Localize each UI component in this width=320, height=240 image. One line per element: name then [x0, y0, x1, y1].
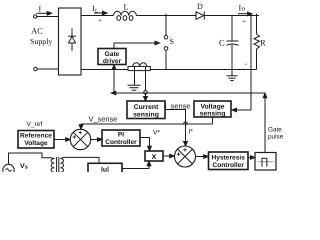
- svg-text:+: +: [242, 18, 246, 26]
- svg-text:Voltage: Voltage: [200, 104, 224, 111]
- transformer secondary winding: [60, 158, 63, 172]
- bottom rail: [81, 69, 257, 71]
- svg-text:|u|: |u|: [101, 167, 109, 173]
- wire hysteresis to pulse box: [248, 157, 251, 159]
- diode D: [196, 12, 204, 20]
- switch S contacts: [164, 35, 168, 39]
- gate pulse block: [255, 153, 276, 171]
- svg-text:-: -: [245, 59, 248, 68]
- svg-text:D: D: [197, 2, 203, 11]
- wire: top terminal to rectifier: [37, 16, 59, 18]
- wire gate driver to switch: [114, 43, 156, 49]
- svg-text:PI: PI: [118, 132, 124, 139]
- arrow into voltage sensing: [232, 108, 237, 112]
- wire: bottom terminal to rectifier: [37, 68, 58, 70]
- output ground stem: [231, 70, 233, 76]
- gate pulse feedback horizontal wire: [115, 92, 266, 94]
- Vs sine: [6, 169, 12, 172]
- arrow I (input current): [37, 12, 49, 14]
- capacitor C plates: [227, 41, 239, 45]
- svg-text:I_sense: I_sense: [165, 102, 191, 111]
- svg-text:driver: driver: [103, 58, 122, 65]
- resistor R branch bottom: [256, 49, 258, 70]
- CT lead into current sensing with arrow: [145, 94, 147, 97]
- capacitor C branch bottom: [231, 45, 233, 70]
- output ground bars: [227, 76, 238, 81]
- voltage sense tap wire (Vo to voltage sensing): [234, 16, 251, 111]
- svg-text:V*: V*: [153, 130, 160, 137]
- terminal (AC supply bottom): [34, 67, 37, 70]
- svg-text:L: L: [124, 3, 129, 12]
- crossover circle on CT lead: [144, 91, 148, 95]
- gate pulse vertical wire from pulse box: [264, 94, 266, 153]
- wire: inductor to diode D: [136, 15, 196, 17]
- summer 2 cross: [178, 149, 193, 164]
- wire: diode to output node: [204, 15, 259, 17]
- CT ground bars: [128, 85, 141, 90]
- svg-text:C: C: [219, 38, 225, 48]
- summer plus signs: [73, 131, 187, 156]
- gate driver box: [98, 49, 126, 65]
- svg-text:Supply: Supply: [30, 37, 52, 46]
- wire summer 2 to hysteresis controller: [196, 156, 205, 158]
- junction tick at R branch: [256, 14, 258, 16]
- summer 1 circle: [70, 129, 90, 149]
- svg-text:Controller: Controller: [105, 139, 137, 146]
- gate pulse wire up into gate driver: [113, 68, 115, 94]
- summer 2 circle: [175, 146, 196, 167]
- wire summer 1 to PI controller: [91, 139, 99, 141]
- arrow Io: [238, 13, 248, 15]
- svg-text:s: s: [25, 165, 28, 171]
- crossover tick: [184, 122, 188, 124]
- svg-text:V_ref: V_ref: [27, 121, 43, 128]
- rectifier bridge box: [59, 8, 82, 75]
- wire secondary to abs block: [60, 157, 99, 163]
- svg-text:Reference: Reference: [20, 133, 52, 140]
- svg-text:AC: AC: [31, 27, 43, 36]
- current transformer bar: [128, 66, 150, 70]
- wire reference voltage to summer 1: [54, 139, 67, 141]
- svg-text:R: R: [260, 38, 266, 48]
- Vs source circle: [3, 164, 14, 175]
- svg-text:Gate: Gate: [105, 51, 120, 58]
- wire Vs to transformer: [9, 153, 55, 164]
- svg-text:+: +: [98, 17, 102, 25]
- transformer core: [57, 157, 59, 172]
- current sensing box: [127, 101, 165, 119]
- resistor R zigzag: [254, 34, 260, 49]
- V_sense wire from voltage sensing to summer 1: [81, 117, 213, 126]
- svg-text:sensing: sensing: [133, 112, 159, 119]
- svg-text:X: X: [152, 154, 157, 161]
- wire X to summer 2: [163, 155, 171, 157]
- multiplier X box: [145, 151, 163, 161]
- switch S branch wire top: [165, 16, 167, 36]
- diode inside rectifier: [68, 29, 76, 52]
- summer 1 cross: [73, 132, 87, 146]
- svg-text:I*: I*: [189, 129, 194, 136]
- transformer primary winding: [51, 158, 54, 172]
- wire: rectifier to inductor: [81, 15, 114, 17]
- resistor R branch top: [256, 16, 258, 35]
- reference voltage box: [18, 131, 54, 149]
- CT right lead down: [145, 66, 147, 90]
- svg-text:Current: Current: [134, 104, 159, 111]
- wire PI to multiplier (V*): [140, 138, 150, 148]
- I_sense wire to summer 2: [165, 110, 186, 143]
- svg-text:Controller: Controller: [212, 162, 244, 169]
- PI controller box: [102, 130, 140, 146]
- gate pulse block icon: [258, 158, 274, 167]
- terminal (AC supply top): [34, 15, 37, 18]
- CT left lead to ground: [134, 66, 136, 85]
- svg-text:V_sense: V_sense: [89, 115, 118, 124]
- svg-text:Voltage: Voltage: [24, 140, 48, 147]
- inductor L: [114, 11, 137, 20]
- svg-text:o: o: [242, 5, 246, 13]
- hysteresis controller box: [209, 152, 249, 170]
- svg-text:I: I: [39, 5, 42, 14]
- abs |u| box: [88, 163, 122, 174]
- svg-text:Hysteresis: Hysteresis: [212, 155, 246, 162]
- switch S branch wire bottom: [165, 50, 167, 69]
- capacitor C branch top: [231, 16, 233, 42]
- svg-text:Gate: Gate: [268, 127, 282, 134]
- arrow IL: [94, 12, 104, 14]
- svg-text:S: S: [170, 37, 174, 46]
- svg-text:pulse: pulse: [268, 134, 284, 141]
- svg-text:sensing: sensing: [200, 111, 226, 118]
- voltage sensing box: [194, 101, 231, 117]
- wire abs block to multiplier: [122, 164, 149, 168]
- junction tick at S branch: [165, 14, 167, 16]
- current transformer loops: [133, 63, 147, 67]
